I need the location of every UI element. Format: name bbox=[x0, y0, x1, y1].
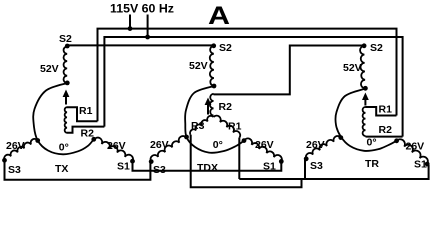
svg-text:0°: 0° bbox=[367, 136, 377, 148]
wire: inner 115V bus bbox=[104, 37, 402, 137]
synchro TDX stator winding S2 (52V) bbox=[210, 46, 214, 86]
TX stator winding S3 (26V) bbox=[4, 139, 38, 160]
svg-text:S1: S1 bbox=[414, 159, 427, 171]
svg-text:S1: S1 bbox=[263, 161, 276, 173]
svg-text:TX: TX bbox=[55, 163, 68, 175]
svg-text:R3: R3 bbox=[191, 120, 205, 132]
TX rotor position arrow bbox=[63, 90, 70, 98]
TX S1 circle junction bbox=[91, 137, 96, 142]
TR rotor position arrow bbox=[362, 93, 369, 101]
svg-text:115V 60 Hz: 115V 60 Hz bbox=[110, 2, 174, 16]
TX S1 terminal junction bbox=[130, 159, 135, 164]
svg-text:S2: S2 bbox=[370, 42, 383, 54]
wire: TDX R3 drop and bottom run bbox=[191, 135, 302, 187]
TR rotor circle arc bbox=[335, 89, 396, 151]
TR S3 circle junction bbox=[338, 135, 343, 140]
TDX rotor winding R3 arm bbox=[190, 116, 213, 135]
svg-text:S3: S3 bbox=[8, 164, 21, 176]
TX S3 circle junction bbox=[35, 138, 40, 143]
svg-text:26V: 26V bbox=[107, 140, 126, 152]
svg-text:26V: 26V bbox=[406, 141, 425, 153]
TR S2 terminal junction bbox=[362, 43, 367, 48]
svg-text:52V: 52V bbox=[189, 60, 208, 72]
wire: TX S3 to TDX S3 bottom run bbox=[5, 160, 151, 180]
TDX stator winding S3 (26V) bbox=[150, 136, 186, 162]
svg-text:S1: S1 bbox=[117, 161, 130, 173]
TR S1 terminal junction bbox=[425, 162, 430, 167]
wire: bottom run to TR S1 riser bbox=[239, 165, 428, 179]
svg-text:R1: R1 bbox=[79, 105, 93, 117]
svg-text:TDX: TDX bbox=[197, 162, 218, 174]
wire: TX R2 to inner bus bbox=[67, 127, 104, 133]
svg-text:52V: 52V bbox=[40, 63, 59, 75]
svg-text:R1: R1 bbox=[228, 121, 242, 133]
svg-text:S3: S3 bbox=[153, 164, 166, 176]
TX circle top junction bbox=[65, 81, 70, 86]
synchro TX stator winding S2 (52V) bbox=[64, 47, 68, 84]
TX S3 terminal junction bbox=[2, 158, 7, 163]
svg-text:R2: R2 bbox=[379, 124, 393, 136]
svg-text:52V: 52V bbox=[343, 62, 362, 74]
svg-text:S2: S2 bbox=[219, 42, 232, 54]
svg-text:26V: 26V bbox=[306, 139, 325, 151]
TR stator winding S3 (26V) bbox=[306, 136, 341, 159]
wire: TDX R1 drop bbox=[238, 138, 240, 180]
wire: TR R2 to inner bus bbox=[366, 136, 403, 138]
junction: stub on outer bus bbox=[128, 26, 133, 31]
wire: supply stub to outer bus bbox=[129, 15, 131, 29]
svg-text:A: A bbox=[208, 2, 230, 30]
svg-text:TR: TR bbox=[365, 158, 379, 170]
wire: TDX R2 to TR S2 bbox=[214, 46, 365, 95]
TX rotor circle arc bbox=[33, 83, 94, 154]
svg-text:26V: 26V bbox=[255, 139, 274, 151]
wire: TR R1 to outer bus bbox=[366, 107, 397, 116]
TX S2 terminal junction bbox=[65, 44, 70, 49]
TDX S1 terminal junction bbox=[279, 159, 284, 164]
svg-text:26V: 26V bbox=[150, 139, 169, 151]
TR stator winding S1 (26V) bbox=[397, 139, 428, 164]
TDX stator winding S1 (26V) bbox=[244, 138, 282, 161]
TR circle top junction bbox=[363, 86, 368, 91]
wire: TX S2 to TDX S2 bbox=[67, 44, 213, 46]
TDX rotor position arrow bbox=[205, 98, 212, 106]
svg-text:26V: 26V bbox=[6, 140, 25, 152]
TDX R3 circle junction bbox=[184, 135, 189, 140]
TR rotor winding bbox=[363, 107, 366, 136]
TX stator winding S1 (26V) bbox=[94, 138, 133, 162]
svg-text:R2: R2 bbox=[219, 101, 233, 113]
TDX R1 circle junction bbox=[242, 138, 247, 143]
junction: stub on inner bus bbox=[145, 35, 150, 40]
wire: TX S1 to TDX S1 bbox=[133, 161, 282, 171]
TR S3 terminal junction bbox=[304, 156, 309, 161]
svg-text:S3: S3 bbox=[310, 160, 323, 172]
wire: outer 115V bus bbox=[98, 29, 397, 122]
TDX circle top junction bbox=[212, 84, 217, 89]
wire: supply stub to inner bus bbox=[147, 15, 149, 38]
svg-text:0°: 0° bbox=[213, 139, 223, 151]
wire: TX R1 to outer bus bbox=[67, 107, 98, 121]
wire: TR S3 drop bbox=[304, 160, 306, 179]
TDX S3 terminal junction bbox=[149, 159, 154, 164]
TDX S2 terminal junction bbox=[211, 43, 216, 48]
TDX rotor winding R2 bbox=[210, 94, 214, 116]
svg-text:0°: 0° bbox=[59, 142, 69, 154]
svg-text:R1: R1 bbox=[379, 104, 393, 116]
TDX rotor winding R1 arm bbox=[214, 116, 241, 138]
TR S1 circle junction bbox=[394, 138, 399, 143]
TX rotor winding bbox=[64, 107, 67, 133]
TDX rotor circle arc bbox=[185, 86, 244, 153]
svg-text:S2: S2 bbox=[59, 33, 72, 45]
synchro TR stator winding S2 (52V) bbox=[360, 46, 365, 88]
